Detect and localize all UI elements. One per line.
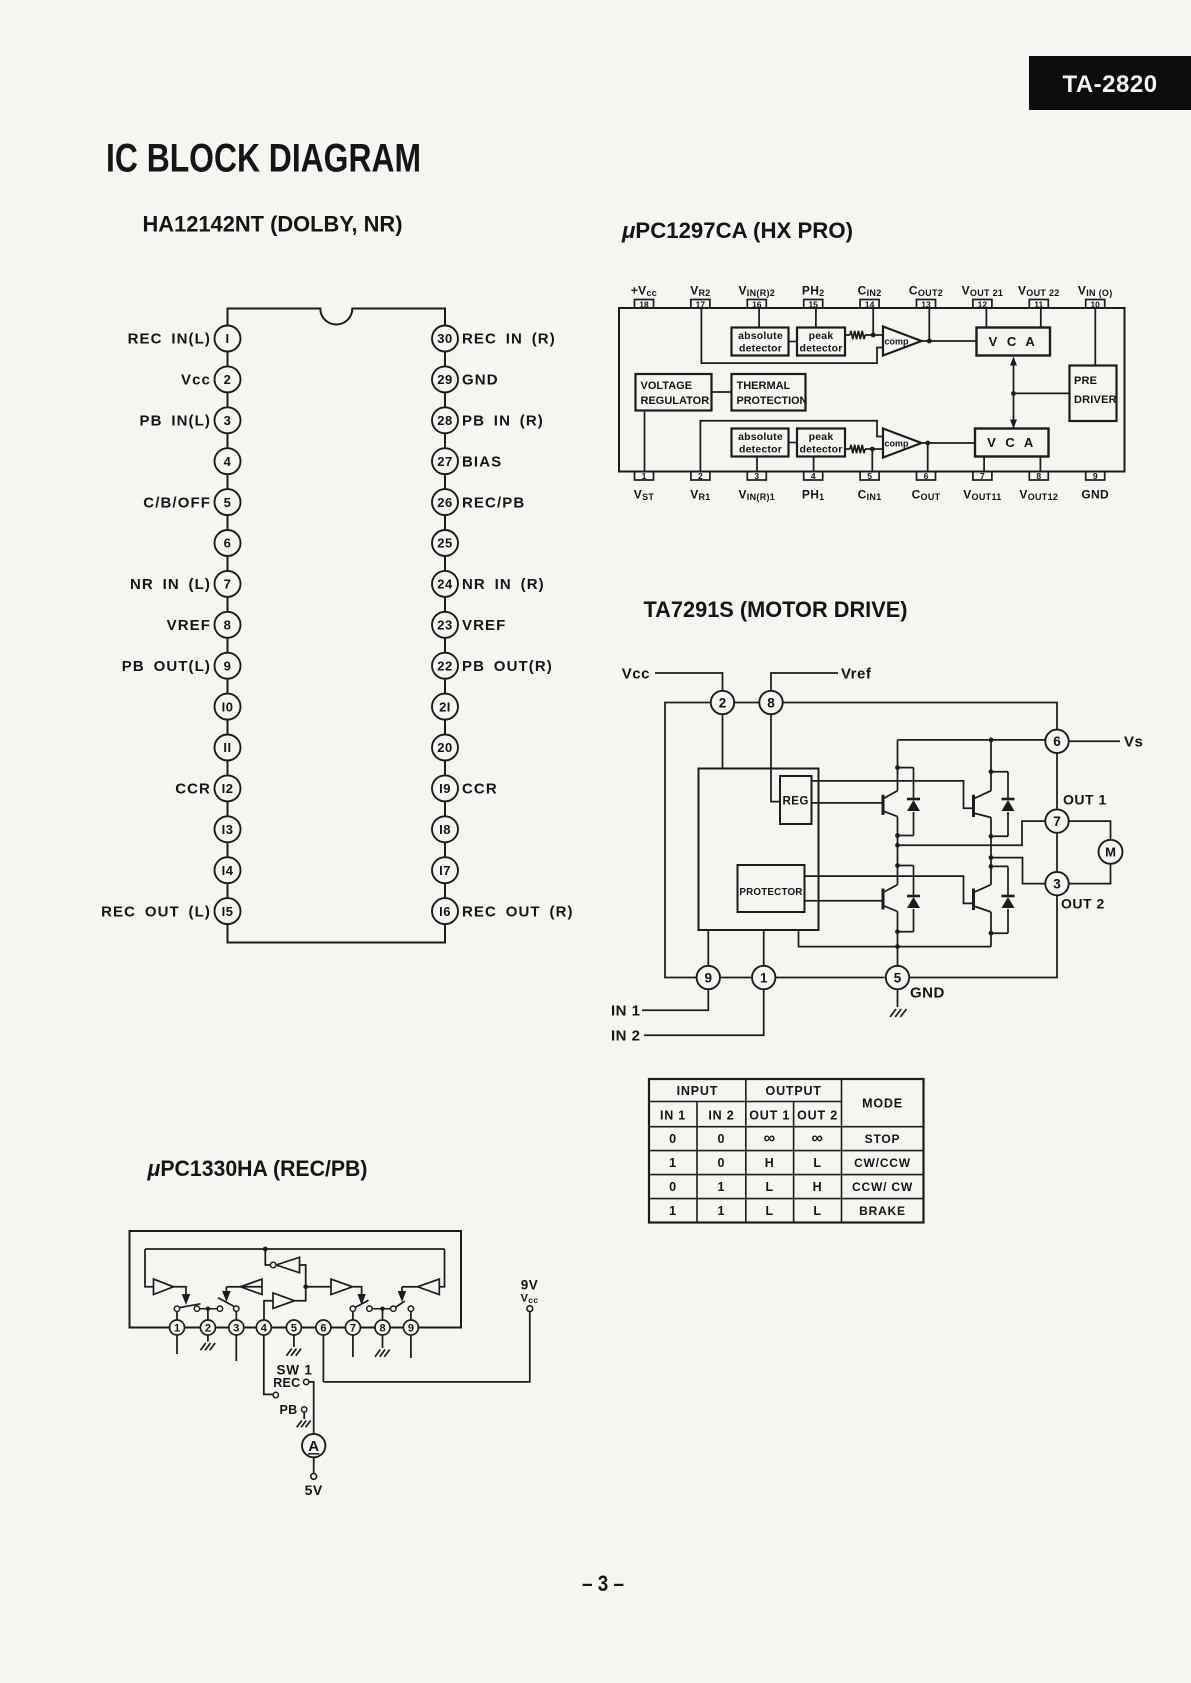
svg-text:4: 4 [261, 1323, 268, 1335]
svg-text:9: 9 [408, 1323, 414, 1335]
svg-text:comp: comp [885, 439, 910, 449]
svg-text:VREF: VREF [167, 617, 211, 634]
svg-text:OUT 1: OUT 1 [749, 1109, 790, 1123]
svg-text:∞: ∞ [811, 1130, 823, 1147]
svg-text:26: 26 [437, 495, 452, 510]
svg-text:1: 1 [760, 970, 768, 985]
svg-text:27: 27 [437, 454, 452, 469]
svg-text:22: 22 [437, 658, 452, 673]
svg-text:L: L [813, 1156, 821, 1170]
svg-text:IN 2: IN 2 [708, 1109, 734, 1123]
svg-text:peak: peak [809, 431, 834, 443]
svg-text:REC/PB: REC/PB [462, 494, 525, 511]
svg-text:2: 2 [698, 471, 703, 481]
svg-text:10: 10 [1090, 299, 1100, 309]
svg-text:7: 7 [980, 471, 985, 481]
svg-text:INPUT: INPUT [677, 1084, 719, 1098]
svg-text:M: M [1105, 845, 1116, 860]
svg-text:STOP: STOP [865, 1132, 901, 1146]
svg-text:3: 3 [1053, 876, 1061, 891]
svg-text:THERMAL: THERMAL [737, 380, 791, 392]
svg-text:30: 30 [437, 331, 452, 346]
svg-text:NR IN (L): NR IN (L) [130, 576, 211, 593]
svg-text:PROTECTION: PROTECTION [737, 395, 808, 407]
svg-text:HA12142NT (DOLBY, NR): HA12142NT (DOLBY, NR) [143, 212, 403, 237]
svg-text:I7: I7 [439, 863, 451, 878]
svg-text:3: 3 [233, 1323, 239, 1335]
svg-text:I4: I4 [222, 863, 234, 878]
svg-text:PB OUT(L): PB OUT(L) [122, 658, 211, 675]
svg-text:1: 1 [718, 1204, 726, 1218]
svg-text:TA-2820: TA-2820 [1062, 71, 1157, 98]
svg-text:GND: GND [462, 372, 499, 389]
svg-text:0: 0 [669, 1132, 677, 1146]
svg-text:5: 5 [224, 495, 232, 510]
svg-text:REC IN (R): REC IN (R) [462, 331, 556, 348]
svg-text:9V: 9V [521, 1278, 539, 1293]
svg-text:I3: I3 [222, 822, 234, 837]
svg-text:Vref: Vref [841, 666, 872, 683]
svg-text:6: 6 [224, 536, 232, 551]
svg-text:11: 11 [1034, 299, 1043, 309]
svg-text:7: 7 [1053, 814, 1061, 829]
svg-text:2I: 2I [439, 699, 451, 714]
svg-text:Vcc: Vcc [521, 1293, 539, 1306]
svg-text:peak: peak [809, 330, 834, 342]
svg-text:A: A [308, 1438, 319, 1455]
svg-text:PROTECTOR: PROTECTOR [739, 887, 802, 898]
svg-text:5V: 5V [305, 1482, 323, 1498]
svg-text:29: 29 [437, 372, 452, 387]
svg-text:REC OUT (L): REC OUT (L) [101, 903, 211, 920]
svg-text:Vcc: Vcc [181, 372, 211, 389]
svg-text:CW/CCW: CW/CCW [854, 1156, 911, 1170]
svg-text:4: 4 [224, 454, 232, 469]
svg-text:0: 0 [669, 1180, 677, 1194]
svg-text:L: L [813, 1204, 821, 1218]
svg-text:5: 5 [894, 970, 902, 985]
svg-text:GND: GND [1081, 488, 1109, 502]
svg-text:5: 5 [867, 471, 872, 481]
svg-text:6: 6 [320, 1323, 326, 1335]
svg-text:REG: REG [782, 796, 808, 808]
svg-text:NR IN (R): NR IN (R) [462, 576, 545, 593]
svg-text:REC: REC [273, 1376, 300, 1390]
svg-text:I0: I0 [222, 699, 234, 714]
svg-text:DRIVER: DRIVER [1074, 394, 1117, 406]
svg-text:I5: I5 [222, 904, 234, 919]
svg-text:23: 23 [437, 618, 452, 633]
svg-text:8: 8 [1036, 471, 1041, 481]
svg-text:H: H [813, 1180, 823, 1194]
svg-text:I8: I8 [439, 822, 451, 837]
svg-text:8: 8 [767, 695, 775, 710]
svg-text:14: 14 [865, 299, 875, 309]
svg-text:9: 9 [1093, 471, 1098, 481]
svg-text:9: 9 [705, 970, 713, 985]
svg-text:2: 2 [719, 695, 727, 710]
svg-text:I: I [225, 331, 229, 346]
svg-text:C/B/OFF: C/B/OFF [143, 494, 211, 511]
svg-text:15: 15 [808, 299, 818, 309]
svg-text:7: 7 [224, 577, 232, 592]
svg-text:∞: ∞ [764, 1130, 776, 1147]
svg-text:Vcc: Vcc [622, 666, 650, 683]
svg-text:PB OUT(R): PB OUT(R) [462, 658, 553, 675]
svg-text:– 3 –: – 3 – [582, 1571, 624, 1596]
svg-text:detector: detector [799, 343, 842, 355]
svg-text:BRAKE: BRAKE [859, 1204, 906, 1218]
svg-text:MODE: MODE [862, 1097, 903, 1111]
svg-text:OUT 2: OUT 2 [1061, 896, 1105, 912]
svg-text:OUT 1: OUT 1 [1063, 792, 1107, 808]
svg-text:17: 17 [696, 299, 706, 309]
svg-text:1: 1 [669, 1156, 677, 1170]
svg-text:REC IN(L): REC IN(L) [128, 331, 211, 348]
svg-text:1: 1 [718, 1180, 726, 1194]
svg-text:2: 2 [205, 1323, 211, 1335]
svg-text:L: L [765, 1204, 773, 1218]
svg-text:PB: PB [280, 1403, 298, 1417]
svg-text:REGULATOR: REGULATOR [641, 395, 710, 407]
svg-text:28: 28 [437, 413, 452, 428]
svg-text:13: 13 [921, 299, 931, 309]
svg-text:0: 0 [718, 1156, 726, 1170]
svg-text:8: 8 [379, 1323, 385, 1335]
svg-text:25: 25 [437, 536, 452, 551]
svg-text:9: 9 [224, 658, 232, 673]
svg-text:CCR: CCR [175, 781, 211, 798]
svg-text:6: 6 [924, 471, 929, 481]
svg-text:8: 8 [224, 618, 232, 633]
svg-text:absolute: absolute [738, 431, 783, 443]
svg-text:L: L [765, 1180, 773, 1194]
svg-text:GND: GND [910, 985, 945, 1002]
svg-text:CCR: CCR [462, 781, 498, 798]
svg-text:V C A: V C A [989, 334, 1038, 349]
svg-text:Vs: Vs [1124, 734, 1143, 751]
svg-text:PB IN (R): PB IN (R) [462, 413, 544, 430]
svg-text:V C A: V C A [987, 435, 1036, 450]
svg-text:12: 12 [978, 299, 988, 309]
svg-text:I6: I6 [439, 904, 451, 919]
svg-text:absolute: absolute [738, 330, 783, 342]
svg-text:PB IN(L): PB IN(L) [140, 413, 211, 430]
svg-text:IN 1: IN 1 [660, 1109, 686, 1123]
svg-text:1: 1 [174, 1323, 180, 1335]
svg-text:VREF: VREF [462, 617, 506, 634]
svg-text:I2: I2 [222, 781, 234, 796]
svg-text:3: 3 [754, 471, 759, 481]
svg-text:II: II [223, 740, 231, 755]
svg-text:7: 7 [350, 1323, 356, 1335]
svg-text:detector: detector [739, 444, 782, 456]
svg-text:OUT 2: OUT 2 [797, 1109, 838, 1123]
svg-text:REC OUT (R): REC OUT (R) [462, 903, 574, 920]
svg-text:6: 6 [1053, 734, 1061, 749]
svg-text:VOLTAGE: VOLTAGE [641, 380, 693, 392]
svg-text:CCW/ CW: CCW/ CW [852, 1180, 913, 1194]
svg-text:1: 1 [669, 1204, 677, 1218]
svg-text:H: H [765, 1156, 775, 1170]
svg-text:20: 20 [437, 740, 452, 755]
svg-text:comp: comp [885, 337, 910, 347]
svg-text:5: 5 [291, 1323, 297, 1335]
svg-text:3: 3 [224, 413, 232, 428]
svg-text:4: 4 [811, 471, 816, 481]
svg-text:16: 16 [752, 299, 762, 309]
svg-text:18: 18 [639, 299, 649, 309]
svg-text:2: 2 [224, 372, 232, 387]
svg-text:PRE: PRE [1074, 375, 1097, 387]
svg-text:detector: detector [739, 343, 782, 355]
svg-text:μPC1297CA (HX PRO): μPC1297CA (HX PRO) [621, 218, 853, 243]
svg-text:24: 24 [437, 577, 453, 592]
svg-text:OUTPUT: OUTPUT [766, 1084, 822, 1098]
svg-text:detector: detector [799, 444, 842, 456]
svg-text:BIAS: BIAS [462, 453, 502, 470]
svg-text:TA7291S (MOTOR DRIVE): TA7291S (MOTOR DRIVE) [644, 597, 908, 622]
svg-text:IN 1: IN 1 [611, 1003, 641, 1020]
svg-text:IC BLOCK DIAGRAM: IC BLOCK DIAGRAM [106, 137, 421, 181]
svg-text:μPC1330HA (REC/PB): μPC1330HA (REC/PB) [147, 1156, 368, 1181]
svg-text:1: 1 [642, 471, 647, 481]
svg-text:0: 0 [718, 1132, 726, 1146]
svg-text:IN 2: IN 2 [611, 1028, 641, 1045]
svg-text:I9: I9 [439, 781, 451, 796]
